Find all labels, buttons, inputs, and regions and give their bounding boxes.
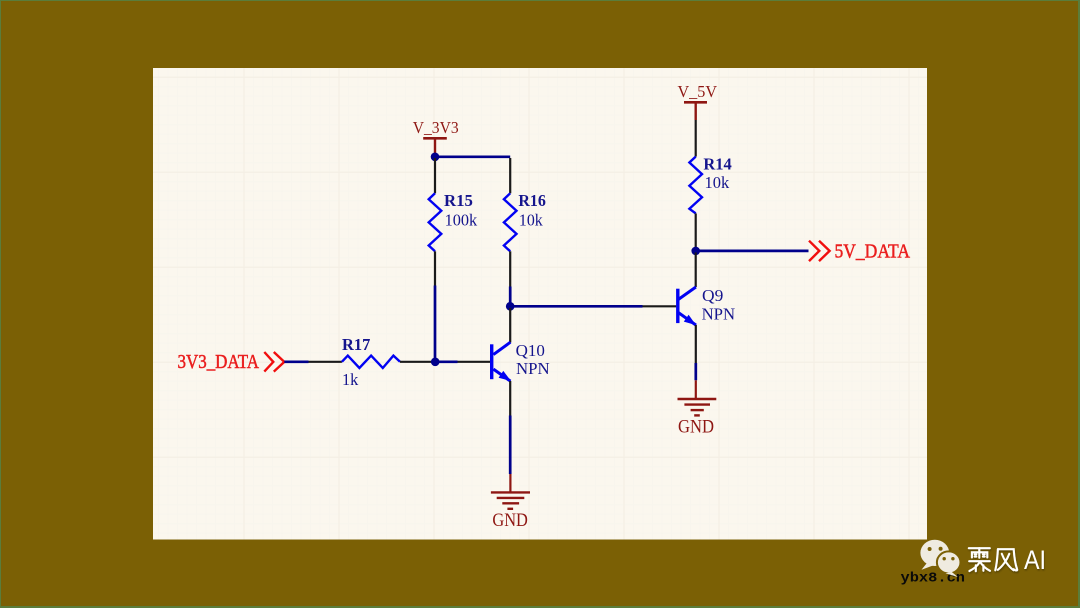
wire Q9 emitter to GND xyxy=(694,363,697,380)
junction node D (5V_DATA / Q9 collector) xyxy=(691,247,700,256)
wire top rail xyxy=(435,155,510,158)
svg-text:NPN: NPN xyxy=(702,304,736,323)
power port V_5V xyxy=(678,82,718,120)
svg-text:V_3V3: V_3V3 xyxy=(413,118,459,137)
pin Q9 collector xyxy=(695,253,697,288)
resistor R14 xyxy=(689,157,702,214)
svg-text:R15: R15 xyxy=(444,191,473,210)
pin R16.2 xyxy=(509,251,511,286)
svg-text:NPN: NPN xyxy=(516,359,550,378)
pin Q9 emitter xyxy=(695,325,697,363)
pin Q10 base xyxy=(458,361,491,363)
transistor Q9 xyxy=(678,287,696,325)
svg-text:ybx8.cn: ybx8.cn xyxy=(901,571,966,586)
pin R15.2 xyxy=(434,251,436,285)
power port V_3V3 xyxy=(413,118,459,157)
pin R16.1 xyxy=(509,158,511,193)
svg-text:R16: R16 xyxy=(518,191,546,210)
ground GND (Q9) xyxy=(678,380,717,437)
junction node C (Q10 base) xyxy=(431,358,440,367)
svg-text:R17: R17 xyxy=(342,335,370,354)
wire node C to Q10 base xyxy=(435,360,457,363)
svg-text:10k: 10k xyxy=(519,210,544,229)
resistor R17 xyxy=(342,356,400,368)
resistor R16 xyxy=(504,193,517,251)
pin R15.1 xyxy=(434,158,436,193)
pin R14.2 xyxy=(695,213,697,249)
pin Q10 collector xyxy=(509,308,511,343)
pin R14.1 xyxy=(695,120,697,157)
wire Q10 emitter to GND xyxy=(509,416,512,475)
svg-text:3V3_DATA: 3V3_DATA xyxy=(178,351,260,373)
pin R17.1 xyxy=(309,361,342,363)
port 3V3_DATA xyxy=(178,351,285,373)
pin R17.2 xyxy=(400,361,433,363)
svg-text:Q9: Q9 xyxy=(702,286,723,305)
pin Q10 emitter xyxy=(509,381,511,416)
svg-text:Q10: Q10 xyxy=(516,341,545,360)
wire R16 to collector node xyxy=(509,287,512,307)
wire R15 to base node xyxy=(434,286,437,362)
svg-text:GND: GND xyxy=(492,510,528,531)
ground GND (Q10) xyxy=(491,474,530,531)
junction node B (Q10 collector / Q9 base) xyxy=(506,302,515,311)
svg-text:V_5V: V_5V xyxy=(678,82,718,101)
svg-text:5V_DATA: 5V_DATA xyxy=(835,240,911,262)
pin Q9 base xyxy=(643,305,677,307)
watermark text feng (风) xyxy=(995,549,1017,570)
resistor R15 xyxy=(429,193,442,251)
svg-text:1k: 1k xyxy=(342,370,359,389)
svg-text:10k: 10k xyxy=(705,173,730,192)
port 5V_DATA xyxy=(809,240,910,262)
wire node D to port 5V_DATA xyxy=(696,250,809,253)
transistor Q10 xyxy=(492,342,511,381)
watermark text ji (霁) xyxy=(969,548,990,571)
junction node A (V_3V3 rail) xyxy=(431,153,440,162)
svg-text:AI: AI xyxy=(1024,545,1046,575)
svg-text:R14: R14 xyxy=(703,154,731,173)
watermark wechat icon xyxy=(920,540,960,577)
wire node B to Q9 base xyxy=(510,305,642,308)
svg-text:100k: 100k xyxy=(445,210,478,229)
schematic sheet xyxy=(153,68,927,540)
svg-text:GND: GND xyxy=(678,417,714,438)
wire port to R17 xyxy=(284,360,308,363)
